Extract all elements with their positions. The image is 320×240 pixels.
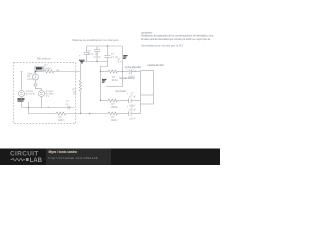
wire V3 [122, 46, 124, 87]
svg-text:entradas obtenidas: entradas obtenidas [147, 63, 165, 67]
wire H7 right to box [131, 113, 140, 115]
junction dot on bottom rail [89, 113, 91, 115]
wire H3 to V0 [54, 71, 81, 73]
junction dot V5/H4 [100, 71, 101, 72]
wire V9 [28, 102, 30, 114]
resistor R5 [108, 112, 117, 115]
svg-text:Comportam.: Comportam. [115, 89, 127, 93]
ground G3 (on V5) [102, 79, 107, 82]
callout label box [35, 66, 44, 71]
wire H6 row [101, 100, 109, 102]
wire V5 mid column [100, 72, 102, 101]
capacitor C1 (on left drop x=86) [84, 46, 90, 62]
dark value label under left circle [18, 98, 25, 100]
note text block top right [141, 30, 214, 47]
resistor R3 [108, 99, 117, 102]
svg-text:micro: micro [27, 78, 34, 81]
capacitor C4 (series on H4) [129, 69, 131, 74]
wire I1 to source row [36, 87, 42, 90]
svg-text:10 kOhm: 10 kOhm [44, 67, 52, 70]
svg-text:1 kOhm: 1 kOhm [58, 119, 65, 122]
svg-text:1.20 V: 1.20 V [129, 117, 136, 120]
wire V0 [80, 63, 82, 80]
capacitor C6 (series on H7) [129, 111, 131, 116]
wire H7 mid [66, 113, 108, 115]
ground G1 (left end of N1) [79, 60, 85, 63]
capacitor C2 (x=97 drop) [94, 46, 100, 62]
svg-text:10 kOhm: 10 kOhm [111, 106, 118, 109]
svg-text:Comportamiento RC: Comportamiento RC [119, 76, 135, 80]
wire V2 bottom [41, 97, 43, 108]
svg-text:Myra / tonic castro: Myra / tonic castro [49, 150, 78, 154]
svg-text:9 V: 9 V [46, 95, 50, 98]
svg-text:LAB: LAB [30, 158, 43, 164]
footer panel [46, 149, 111, 166]
capacitor C5 (series on H6) [129, 98, 131, 103]
wire jog V2b bottom to H4 [101, 62, 108, 72]
wire rail inside box [22, 107, 75, 109]
svg-text:4.7 uF: 4.7 uF [129, 95, 136, 98]
output box divider [141, 94, 154, 96]
dashed box microphone model [14, 63, 76, 124]
svg-text:1 kOhm: 1 kOhm [112, 79, 119, 82]
capacitor C7 (on inner rail) [68, 106, 70, 110]
current source I1 (mic capsule) [33, 72, 39, 83]
wire H4 row [101, 71, 109, 73]
source V3b (left circle) [18, 72, 24, 97]
wire H6 right to box [131, 100, 140, 102]
svg-text:de senal: de senal [26, 93, 36, 96]
svg-text:Microfono: Microfono [37, 56, 51, 60]
wire H3 row (inside box) [36, 71, 45, 73]
resistor R2 [108, 70, 117, 73]
resistor R4 [56, 112, 66, 115]
junction dot W1/C3 [107, 45, 108, 46]
resistor R1 [44, 70, 54, 73]
svg-text:al valor para la intensidad qu: al valor para la intensidad que circula … [141, 37, 210, 41]
wire H4 mid [117, 71, 129, 73]
wire H4 right to box [132, 71, 141, 73]
junction dot H4/V3 [122, 71, 123, 72]
wire left circle bottom [21, 97, 23, 108]
wire H6 mid [117, 100, 128, 102]
svg-text:http://circuitlab.com/c8kba46: http://circuitlab.com/c8kba46 [49, 156, 98, 160]
svg-text:9 V: 9 V [118, 61, 122, 64]
junction dot rail [28, 107, 29, 108]
junction dot V5/H6 [100, 100, 101, 101]
wire V6 below box [140, 104, 142, 114]
diamond arrow of I1 [34, 83, 37, 86]
svg-text:Vout/senal de salida: Vout/senal de salida [125, 65, 142, 69]
svg-text:CIRCUIT: CIRCUIT [10, 150, 39, 157]
junction dot N1/C2 [96, 61, 97, 62]
svg-text:Sistema de ecualizacion con tr: Sistema de ecualizacion con triangulo [72, 38, 119, 42]
source V2 (right circle) [38, 90, 44, 96]
svg-text:100 uF: 100 uF [129, 108, 136, 111]
junction dot H7/V0 [80, 113, 81, 114]
wire W1 top rail [87, 45, 123, 47]
svg-text:1 kOhm: 1 kOhm [111, 119, 118, 122]
svg-text:out: out [56, 69, 60, 72]
wire node N1 [84, 61, 108, 63]
svg-text:47 uF: 47 uF [94, 56, 101, 59]
wire H7 mid2 [117, 113, 128, 115]
wire H5 [107, 86, 123, 88]
svg-text:intensidad que circula por la: intensidad que circula por la R2 [141, 44, 183, 48]
footer bar [0, 149, 220, 166]
wire H7 bottom rail [29, 113, 57, 115]
ground G2 (on V3) [123, 56, 127, 59]
capacitor C3 (x=107.5 drop) [105, 46, 111, 62]
output box [141, 71, 154, 105]
